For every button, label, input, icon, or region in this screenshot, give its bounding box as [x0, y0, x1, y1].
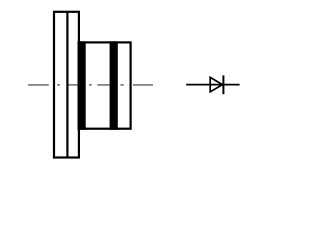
diode lead wire: [186, 84, 239, 86]
body outline: [79, 42, 131, 128]
centerline (dash-dot axis): [28, 84, 153, 86]
diode cathode bar: [222, 75, 224, 94]
flange outline: [54, 12, 79, 158]
flange mid line: [66, 12, 68, 158]
diode triangle (anode): [210, 77, 222, 91]
black band left: [78, 41, 85, 130]
black band right: [110, 41, 118, 130]
